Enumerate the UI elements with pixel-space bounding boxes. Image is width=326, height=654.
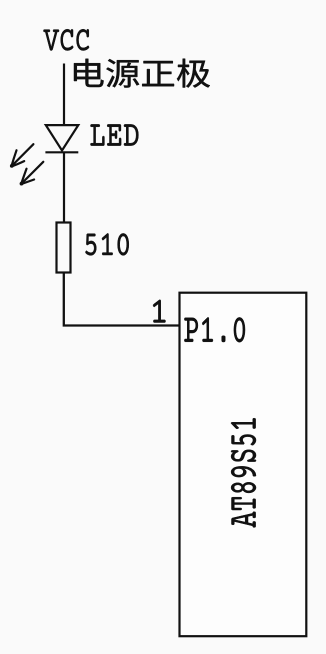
pin name P1.0	[184, 317, 245, 342]
LED D1	[45, 125, 78, 152]
pin number 1	[153, 300, 165, 323]
IC U1 AT89S51 body	[180, 293, 307, 637]
resistor R1 510	[57, 223, 71, 273]
node VCC	[44, 29, 90, 50]
wire LED cathode to resistor	[63, 152, 65, 222]
LED label	[91, 124, 139, 145]
light emission arrow 2	[21, 162, 43, 184]
wire VCC to LED anode	[63, 64, 65, 127]
wire resistor to pin 1 (down then right)	[64, 273, 180, 326]
resistor value 510	[86, 233, 129, 255]
light emission arrow 1	[11, 144, 33, 166]
IC part label AT89S51	[231, 418, 256, 527]
label 电源正极 (power positive)	[74, 59, 210, 88]
